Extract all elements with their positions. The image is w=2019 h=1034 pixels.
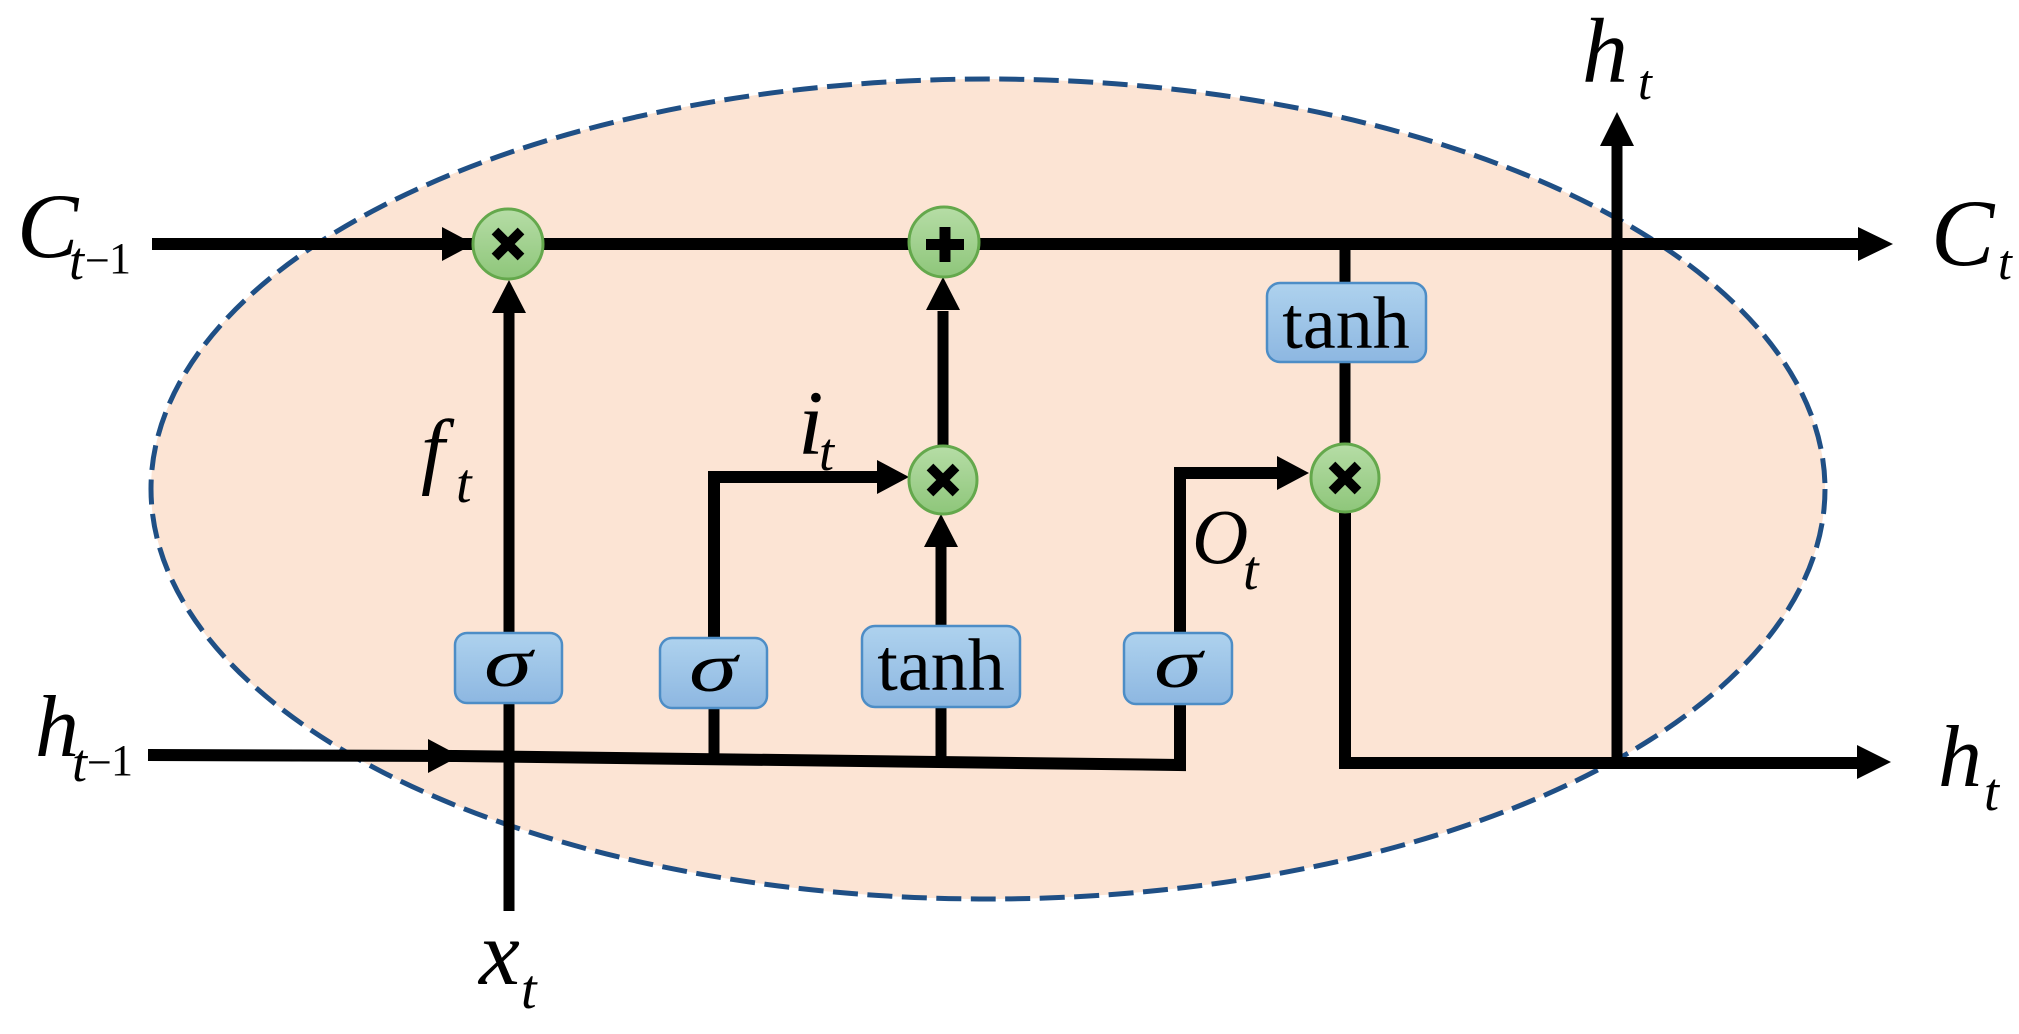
arrowhead O into x3	[1277, 456, 1309, 490]
svg-text:t: t	[456, 453, 473, 515]
arrowhead i into x2	[877, 460, 909, 494]
svg-text:t: t	[1638, 54, 1653, 110]
arrowhead h out right	[1857, 745, 1891, 779]
svg-text:tanh: tanh	[1282, 283, 1409, 365]
svg-text:h: h	[1582, 0, 1628, 102]
arrowhead ht up	[1600, 112, 1634, 146]
svg-text:h: h	[1938, 709, 1982, 806]
arrowhead f up	[492, 280, 526, 313]
wire tanh-mid up	[936, 546, 947, 626]
svg-text:1: 1	[109, 234, 131, 283]
cell body ellipse	[151, 79, 1825, 899]
wire tanh-mid down	[936, 707, 947, 761]
svg-text:t: t	[69, 231, 86, 291]
arrowhead C right	[1858, 227, 1893, 261]
wire x2 to plus	[938, 311, 949, 446]
svg-text:x: x	[477, 902, 520, 1004]
svg-text:t: t	[819, 422, 836, 482]
arrowhead C into x1	[442, 227, 474, 261]
svg-text:−: −	[85, 236, 110, 285]
wire ht vertical	[1612, 146, 1623, 769]
arrowhead tanh-mid up	[924, 514, 958, 547]
svg-text:O: O	[1192, 493, 1248, 580]
arrowhead h-line	[428, 739, 460, 773]
wire h-line bottom	[148, 473, 1277, 765]
gate box sigma2	[660, 638, 767, 708]
svg-text:1: 1	[111, 736, 133, 785]
wire i connector	[714, 477, 877, 638]
gate box tanh top	[1267, 283, 1426, 362]
multiply node x3	[1311, 444, 1379, 512]
gate box tanh mid	[862, 626, 1020, 707]
wire C-line	[152, 238, 1858, 250]
multiply node x2	[909, 446, 977, 514]
svg-text:−: −	[87, 738, 112, 787]
svg-text:tanh: tanh	[877, 625, 1004, 707]
svg-text:σ: σ	[1154, 626, 1205, 703]
arrowhead plus up	[926, 277, 960, 310]
svg-text:C: C	[1931, 180, 1996, 286]
wire tanh-top connector	[1340, 244, 1351, 444]
svg-text:t: t	[1984, 762, 2001, 822]
wire x3 down and h out	[1345, 512, 1857, 763]
multiply node x1	[473, 209, 543, 279]
svg-text:t: t	[1998, 234, 2013, 290]
wire sigma2 down	[709, 707, 720, 758]
svg-text:σ: σ	[484, 625, 535, 702]
add node plus	[909, 207, 979, 277]
svg-text:t: t	[1243, 540, 1260, 602]
gate box sigma1	[455, 633, 562, 703]
wire f vertical	[504, 300, 515, 911]
svg-text:σ: σ	[689, 630, 740, 707]
gate box sigma4	[1124, 633, 1232, 704]
svg-text:t: t	[521, 959, 538, 1021]
